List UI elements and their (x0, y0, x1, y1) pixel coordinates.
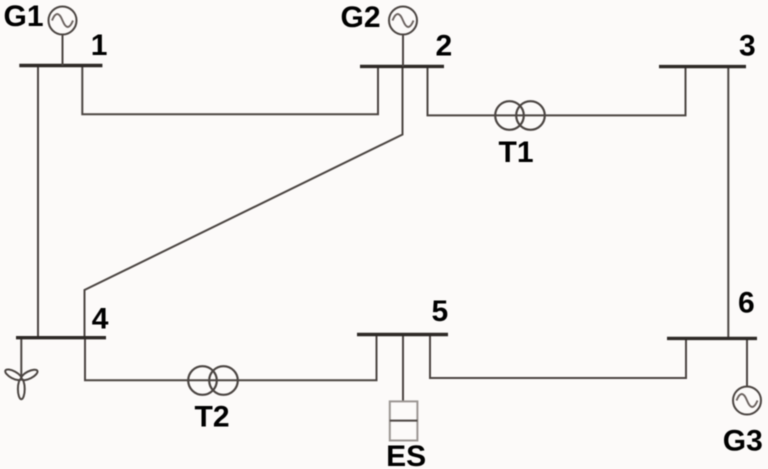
transformer T1 (495, 101, 545, 130)
transformer T2 (188, 366, 238, 395)
load propeller at bus 4 (4, 367, 39, 399)
wire bus4 to T2 to bus5 (85, 335, 377, 381)
wire bus2 to T1 to bus3 (428, 66, 686, 115)
svg-text:G3: G3 (723, 425, 763, 458)
generator G1 (49, 7, 77, 66)
svg-text:1: 1 (91, 29, 108, 62)
bus 3 (659, 65, 746, 68)
wire bus6 to G3 (746, 338, 748, 386)
wire bus5 to ES (402, 335, 404, 402)
svg-text:2: 2 (436, 30, 453, 63)
svg-text:G1: G1 (4, 0, 44, 33)
wire bus3 to bus6 vertical (727, 67, 729, 339)
svg-text:3: 3 (739, 30, 756, 63)
svg-text:4: 4 (92, 303, 109, 336)
wire bus1 to bus4 vertical (37, 66, 39, 338)
svg-text:5: 5 (432, 295, 449, 328)
generator G3 (733, 387, 761, 415)
svg-text:ES: ES (386, 440, 426, 469)
svg-text:T1: T1 (499, 136, 534, 169)
bus 2 (360, 65, 444, 68)
generator G2 (389, 7, 417, 67)
wire bus2 to bus4 diagonal (85, 66, 403, 337)
svg-text:6: 6 (738, 287, 755, 320)
svg-text:G2: G2 (341, 1, 381, 34)
wire bus5 to bus6 (430, 335, 686, 379)
svg-text:T2: T2 (195, 401, 230, 434)
wire bus4 to load (20, 338, 22, 379)
bus 4 (16, 336, 106, 339)
energy storage ES box (390, 401, 418, 440)
wire bus1 to bus2 (82, 66, 378, 115)
bus 6 (667, 337, 757, 340)
bus 1 (19, 64, 102, 67)
bus 5 (357, 333, 448, 336)
